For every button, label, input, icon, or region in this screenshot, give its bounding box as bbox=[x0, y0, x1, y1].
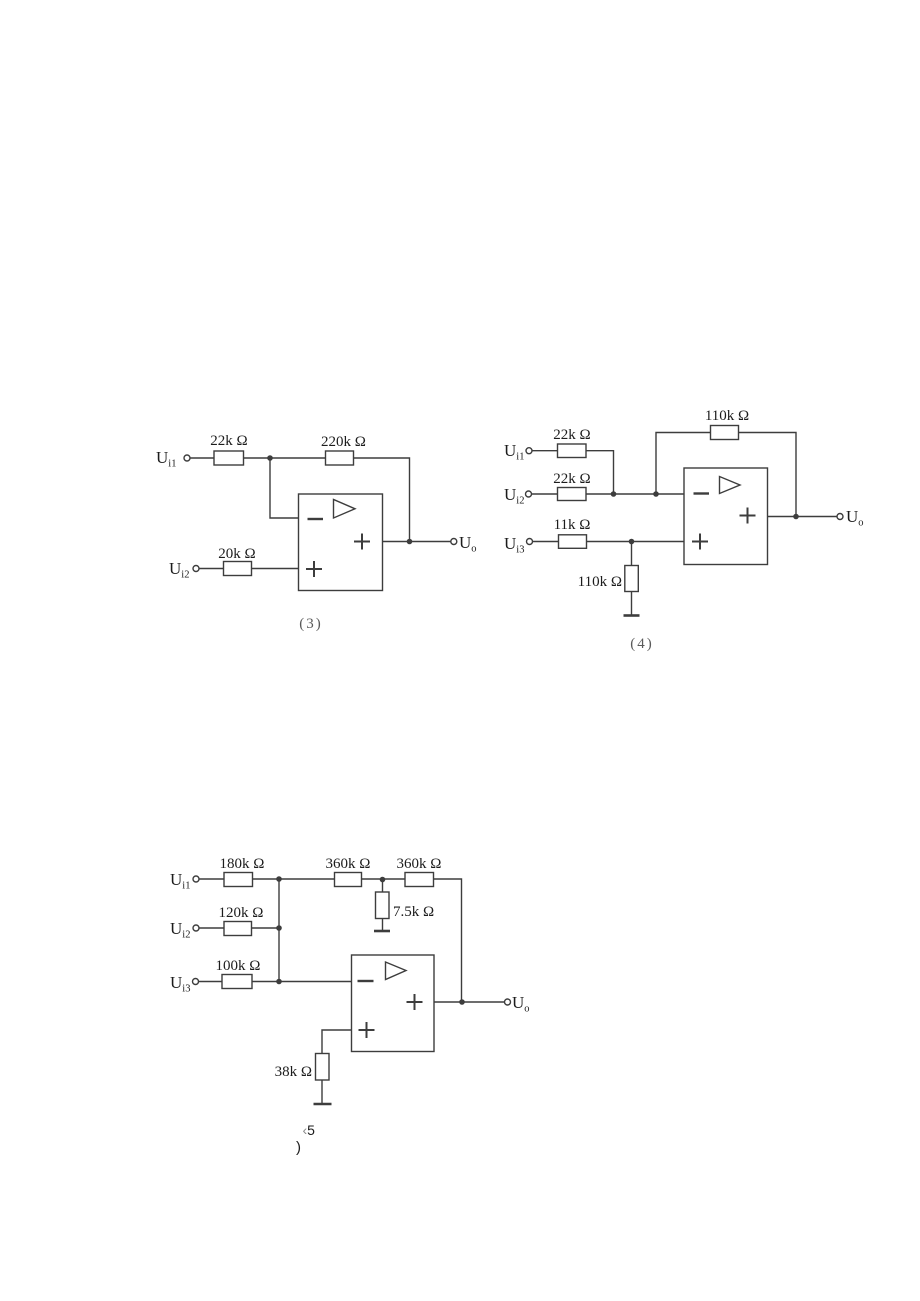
svg-text:): ) bbox=[296, 1139, 301, 1156]
svg-text:Ui1: Ui1 bbox=[504, 441, 524, 463]
wire output bbox=[768, 516, 840, 518]
wire bbox=[586, 493, 684, 495]
wire bbox=[199, 981, 223, 983]
label Ui1 (4) bbox=[504, 441, 524, 463]
node Ui1 terminal bbox=[184, 455, 190, 461]
label 360kΩ b (5) bbox=[397, 856, 442, 872]
label 22kΩ b (4) bbox=[553, 471, 590, 487]
svg-text:Ui3: Ui3 bbox=[170, 973, 190, 995]
svg-text:Ui1: Ui1 bbox=[156, 448, 176, 470]
wire feedback bbox=[656, 433, 796, 517]
svg-text:Ui1: Ui1 bbox=[170, 870, 190, 892]
node Ui2 terminal bbox=[193, 566, 199, 572]
caption (5 bbox=[303, 1122, 316, 1138]
wire bbox=[199, 927, 224, 929]
svg-text:220k Ω: 220k Ω bbox=[321, 434, 366, 450]
op-amp U2 bbox=[684, 468, 768, 565]
wire bus vertical bbox=[278, 879, 280, 982]
svg-text:Ui2: Ui2 bbox=[504, 485, 524, 507]
label 110kΩ feedback (4) bbox=[705, 408, 749, 424]
wire bbox=[252, 981, 352, 983]
wire bbox=[586, 451, 614, 494]
resistor 7.5kΩ bbox=[376, 892, 390, 919]
label 7.5kΩ (5) bbox=[393, 904, 434, 920]
svg-text:20k Ω: 20k Ω bbox=[218, 546, 255, 562]
label 180kΩ (5) bbox=[220, 856, 265, 872]
wire bbox=[190, 457, 214, 459]
wire bbox=[199, 878, 224, 880]
label Ui1 (3) bbox=[156, 448, 176, 470]
caption (4) bbox=[630, 636, 654, 652]
ground bbox=[314, 1103, 332, 1106]
label Uo (4) bbox=[846, 507, 864, 529]
wire bbox=[270, 458, 299, 518]
node Ui3 terminal bbox=[193, 979, 199, 985]
label 360kΩ a (5) bbox=[326, 856, 371, 872]
resistor 220kΩ bbox=[326, 451, 354, 465]
wire bbox=[354, 458, 410, 542]
resistor 110kΩ feedback bbox=[711, 426, 739, 440]
resistor 110kΩ to ground bbox=[625, 566, 639, 592]
node junction bbox=[276, 979, 282, 985]
svg-text:Ui3: Ui3 bbox=[504, 534, 524, 556]
svg-text:Uo: Uo bbox=[459, 533, 477, 555]
caption ) bbox=[296, 1139, 301, 1156]
node output junction bbox=[407, 539, 413, 545]
label 22kΩ (3) bbox=[210, 433, 247, 449]
wire bbox=[533, 541, 559, 543]
wire bbox=[253, 878, 335, 880]
wire bbox=[382, 880, 384, 893]
label 110kΩ ground (4) bbox=[578, 574, 622, 590]
svg-text:(3): (3) bbox=[299, 616, 323, 632]
node Uo terminal bbox=[837, 514, 843, 520]
wire bbox=[532, 493, 558, 495]
node output junction bbox=[459, 999, 465, 1005]
node junction bbox=[276, 925, 282, 931]
wire bbox=[532, 450, 558, 452]
node Ui3 terminal bbox=[527, 539, 533, 545]
node junction bbox=[611, 491, 617, 497]
wire output bbox=[383, 541, 451, 543]
svg-text:180k Ω: 180k Ω bbox=[220, 856, 265, 872]
op-amp U1 bbox=[299, 494, 383, 591]
svg-text:22k Ω: 22k Ω bbox=[553, 427, 590, 443]
svg-text:360k Ω: 360k Ω bbox=[326, 856, 371, 872]
resistor 22kΩ bbox=[558, 444, 587, 458]
svg-text:Ui2: Ui2 bbox=[170, 919, 190, 941]
label 220kΩ (3) bbox=[321, 434, 366, 450]
label 11kΩ (4) bbox=[554, 517, 591, 533]
svg-text:22k Ω: 22k Ω bbox=[210, 433, 247, 449]
resistor 22kΩ bbox=[214, 451, 244, 465]
resistor 11kΩ bbox=[559, 535, 587, 549]
node junction bbox=[380, 877, 386, 883]
label Uo (5) bbox=[512, 993, 530, 1015]
label Ui2 (3) bbox=[169, 559, 189, 581]
resistor 22kΩ b bbox=[558, 488, 587, 501]
ground bbox=[374, 930, 390, 933]
wire bbox=[631, 542, 633, 566]
wire bbox=[587, 541, 685, 543]
node Ui1 terminal bbox=[526, 448, 532, 454]
svg-text:110k Ω: 110k Ω bbox=[578, 574, 622, 590]
label Ui3 (5) bbox=[170, 973, 190, 995]
node Ui2 terminal bbox=[193, 925, 199, 931]
resistor 120kΩ bbox=[224, 922, 252, 936]
wire bbox=[252, 568, 299, 570]
wire bbox=[362, 878, 406, 880]
resistor 180kΩ bbox=[224, 873, 253, 887]
label 100kΩ (5) bbox=[216, 958, 261, 974]
resistor 100kΩ bbox=[222, 975, 252, 989]
svg-text:Uo: Uo bbox=[512, 993, 530, 1015]
label Uo (3) bbox=[459, 533, 477, 555]
svg-text:120k Ω: 120k Ω bbox=[219, 905, 264, 921]
wire output bbox=[434, 1001, 504, 1003]
svg-text:110k Ω: 110k Ω bbox=[705, 408, 749, 424]
label Ui1 (5) bbox=[170, 870, 190, 892]
resistor 20kΩ bbox=[224, 562, 252, 576]
node Ui1 terminal bbox=[193, 876, 199, 882]
node output junction bbox=[793, 514, 799, 520]
svg-text:11k Ω: 11k Ω bbox=[554, 517, 591, 533]
label 120kΩ (5) bbox=[219, 905, 264, 921]
svg-text:100k Ω: 100k Ω bbox=[216, 958, 261, 974]
wire bbox=[244, 457, 326, 459]
svg-text:22k Ω: 22k Ω bbox=[553, 471, 590, 487]
node junction A bbox=[267, 455, 273, 461]
wire bbox=[252, 927, 280, 929]
svg-text:7.5k Ω: 7.5k Ω bbox=[393, 904, 434, 920]
label Ui3 (4) bbox=[504, 534, 524, 556]
svg-text:38k Ω: 38k Ω bbox=[275, 1064, 312, 1080]
op-amp U3 bbox=[352, 955, 435, 1052]
node junction bbox=[276, 876, 282, 882]
wire bbox=[631, 592, 633, 616]
node Uo terminal bbox=[505, 999, 511, 1005]
wire noninverting bbox=[322, 1030, 352, 1054]
node Uo terminal bbox=[451, 539, 457, 545]
label 38kΩ (5) bbox=[275, 1064, 312, 1080]
wire bbox=[434, 879, 462, 1002]
resistor 360kΩ a bbox=[335, 873, 362, 887]
label Ui2 (4) bbox=[504, 485, 524, 507]
resistor 360kΩ b bbox=[405, 873, 434, 887]
svg-text:Ui2: Ui2 bbox=[169, 559, 189, 581]
label 22kΩ a (4) bbox=[553, 427, 590, 443]
node junction bbox=[629, 539, 635, 545]
wire bbox=[382, 919, 384, 931]
svg-text:(4): (4) bbox=[630, 636, 654, 652]
node junction bbox=[653, 491, 659, 497]
svg-text:‹5: ‹5 bbox=[303, 1122, 316, 1138]
svg-text:Uo: Uo bbox=[846, 507, 864, 529]
ground bbox=[624, 614, 640, 617]
label 20kΩ (3) bbox=[218, 546, 255, 562]
wire bbox=[321, 1080, 323, 1104]
resistor 38kΩ bbox=[316, 1054, 330, 1081]
label Ui2 (5) bbox=[170, 919, 190, 941]
svg-text:360k Ω: 360k Ω bbox=[397, 856, 442, 872]
wire bbox=[199, 568, 224, 570]
caption (3) bbox=[299, 616, 323, 632]
node Ui2 terminal bbox=[526, 491, 532, 497]
